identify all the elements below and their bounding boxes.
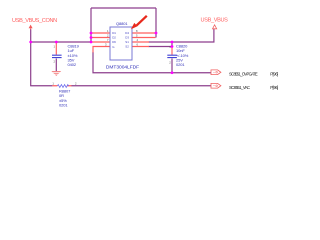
svg-text:S2: S2 bbox=[125, 45, 129, 49]
wire: left riser x=91 bbox=[90, 8, 92, 42]
svg-text:1: 1 bbox=[52, 82, 54, 86]
wire: VAC line right segment bbox=[71, 85, 211, 87]
svg-text:D4: D4 bbox=[125, 31, 129, 35]
svg-text:USB_VBUS_CONN: USB_VBUS_CONN bbox=[12, 18, 57, 24]
svg-text:Q8801: Q8801 bbox=[116, 21, 128, 26]
off-page connector SC8551_OVPGATE bbox=[211, 70, 221, 75]
capacitor C8819 plates bbox=[52, 55, 62, 57]
wire: C8820 vertical bbox=[171, 42, 173, 73]
pin labels right bbox=[125, 31, 129, 49]
wire: C8819 vertical bbox=[55, 59, 57, 72]
resistor R8807 pin leads bbox=[52, 85, 71, 87]
resistor R8807 value labels bbox=[59, 88, 71, 107]
pin numbers right bbox=[136, 29, 139, 47]
svg-text:0201: 0201 bbox=[176, 62, 185, 67]
capacitor C8820 plates bbox=[167, 55, 177, 57]
svg-text:0201: 0201 bbox=[59, 103, 68, 108]
resistor R8807 pin numbers bbox=[52, 82, 77, 86]
wire: S2 row to cap C8820 bbox=[149, 46, 173, 48]
wire: VAC line left segment bbox=[30, 85, 52, 87]
capacitor C8819 pin numbers bbox=[54, 45, 56, 64]
pin stubs right of Q8801 bbox=[132, 33, 156, 47]
wire: gate net vertical + OVPGATE line bbox=[93, 52, 211, 73]
pin stubs left of Q8801 bbox=[91, 33, 110, 53]
junction dots bbox=[29, 32, 173, 75]
svg-text:USB_VBUS: USB_VBUS bbox=[201, 18, 229, 24]
svg-text:2: 2 bbox=[75, 82, 77, 86]
svg-text:P[96]: P[96] bbox=[270, 85, 278, 90]
svg-text:D1: D1 bbox=[112, 31, 116, 35]
resistor R8807 zigzag bbox=[57, 85, 68, 88]
svg-text:DMT3004LFDF: DMT3004LFDF bbox=[106, 64, 139, 70]
transistor Q8801 body bbox=[110, 27, 132, 60]
off-page connector SC8551_VAC bbox=[211, 83, 221, 88]
svg-text:P[96]: P[96] bbox=[270, 71, 278, 76]
ground arrow under C8819 bbox=[51, 71, 62, 76]
power symbol USB_VBUS (hollow up arrow) bbox=[213, 25, 217, 29]
wire: horizontal y=42 from left vertical to left riser bbox=[31, 41, 91, 43]
wire: right riser x=156 bbox=[155, 8, 157, 38]
capacitor C8820 value labels bbox=[176, 43, 189, 67]
capacitor C8820 pin numbers bbox=[169, 45, 171, 65]
svg-text:0402: 0402 bbox=[68, 62, 77, 67]
svg-text:S1: S1 bbox=[125, 40, 129, 44]
svg-text:SC8551_OVPGATE: SC8551_OVPGATE bbox=[229, 71, 258, 76]
svg-text:1: 1 bbox=[54, 45, 56, 49]
pin numbers left bbox=[105, 29, 109, 47]
svg-text:2: 2 bbox=[169, 61, 171, 65]
wire: left vertical from conn symbol down bbox=[30, 29, 32, 85]
svg-text:SC8551_VAC: SC8551_VAC bbox=[229, 85, 250, 90]
svg-text:D3: D3 bbox=[125, 36, 129, 40]
capacitor C8820 pin leads bbox=[171, 47, 173, 55]
pin labels left bbox=[112, 31, 116, 49]
annotation arrow pointing at Q8801 bbox=[131, 16, 147, 29]
svg-text:D2: D2 bbox=[112, 36, 116, 40]
svg-text:2: 2 bbox=[54, 60, 56, 64]
svg-text:D6: D6 bbox=[112, 40, 116, 44]
wire: loop top bbox=[91, 7, 156, 9]
power symbol USB_VBUS_CONN (filled up arrow) bbox=[29, 25, 33, 30]
capacitor C8819 value labels bbox=[68, 43, 80, 67]
wire: S1 row to USB_VBUS bbox=[149, 29, 214, 42]
capacitor C8819 pin leads bbox=[55, 43, 57, 55]
